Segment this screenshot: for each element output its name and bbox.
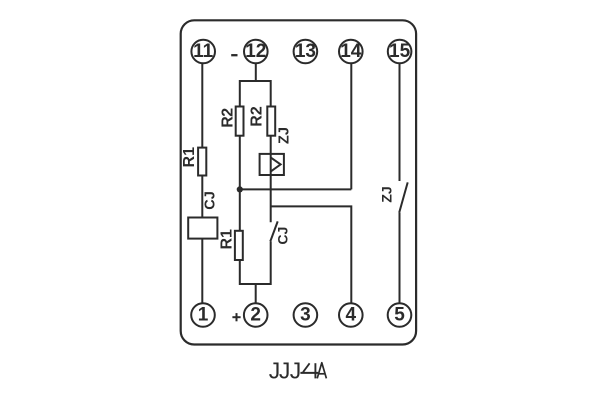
svg-text:15: 15 xyxy=(389,41,411,62)
svg-text:ZJ: ZJ xyxy=(378,186,394,202)
svg-text:2: 2 xyxy=(250,304,261,325)
svg-text:CJ: CJ xyxy=(202,191,218,210)
svg-text:12: 12 xyxy=(245,41,266,62)
svg-text:13: 13 xyxy=(295,41,316,62)
svg-text:5: 5 xyxy=(394,304,405,325)
svg-text:R1: R1 xyxy=(181,147,198,168)
svg-text:CJ: CJ xyxy=(274,227,290,245)
svg-text:R1: R1 xyxy=(218,229,235,250)
svg-text:11: 11 xyxy=(193,41,214,62)
svg-text:R2: R2 xyxy=(219,108,236,128)
svg-text:ZJ: ZJ xyxy=(276,127,292,144)
svg-text:14: 14 xyxy=(340,41,362,62)
svg-text:4: 4 xyxy=(346,304,357,325)
svg-text:R2: R2 xyxy=(249,106,266,127)
svg-text:3: 3 xyxy=(300,304,311,325)
svg-text:1: 1 xyxy=(198,304,209,325)
svg-text:JJJ: JJJ xyxy=(269,357,302,383)
